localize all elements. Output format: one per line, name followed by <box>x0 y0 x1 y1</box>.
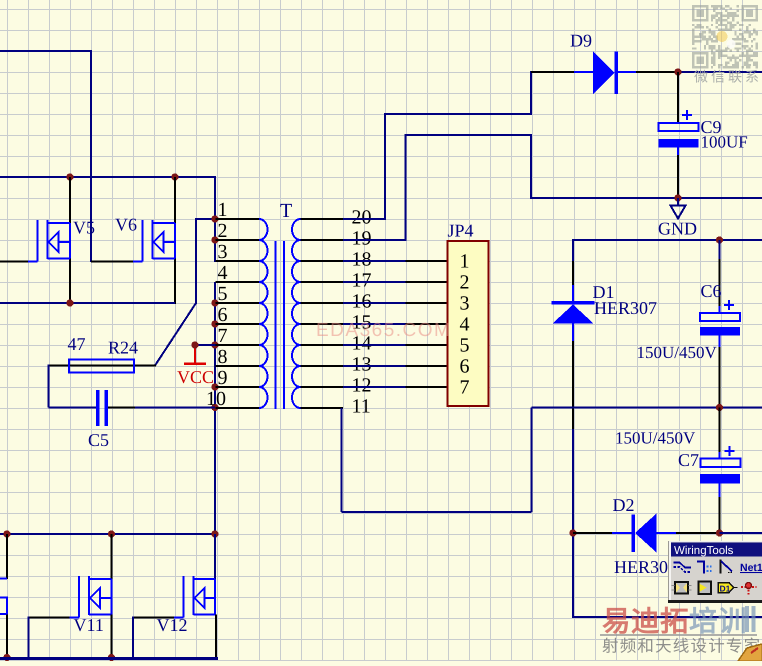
wire T pin 18 to JP4 <box>343 260 406 262</box>
wire T pin 14 to JP4 <box>343 344 406 346</box>
pin 19 of T <box>301 228 372 250</box>
svg-text:7: 7 <box>460 377 470 399</box>
label VCC <box>177 367 214 387</box>
pin 4 of T <box>216 262 260 284</box>
wire bottom HV return y=617 <box>573 616 762 618</box>
svg-text:7: 7 <box>218 325 228 347</box>
wire D2 anode lead <box>657 532 720 534</box>
pin 2 of T <box>216 220 260 242</box>
transistor V12 <box>174 576 215 618</box>
pin 1 of T <box>216 199 260 221</box>
label V6 <box>115 215 137 235</box>
svg-text:5: 5 <box>460 335 470 357</box>
svg-text:R24: R24 <box>108 338 138 358</box>
wire V10 drain lead <box>6 534 8 579</box>
wire D1 cathode lead <box>572 239 574 301</box>
svg-text:易迪拓培训: 易迪拓培训 <box>602 606 747 638</box>
wire mid rail y=407.5 <box>532 407 762 409</box>
connector JP4 <box>448 241 489 406</box>
capacitor C5 <box>96 390 108 426</box>
svg-text:微信联系: 微信联系 <box>694 69 762 85</box>
svg-text:17: 17 <box>352 270 372 292</box>
svg-text:射频和天线设计专家: 射频和天线设计专家 <box>602 638 761 656</box>
icon place part <box>672 582 692 594</box>
wire R24 body crossing <box>70 365 134 367</box>
node pin10 junction <box>211 404 218 411</box>
wire V6 gate <box>91 261 133 263</box>
svg-text:3: 3 <box>460 293 470 315</box>
wire D9 cathode lead <box>618 71 678 73</box>
wire V10 source lead <box>6 615 8 660</box>
pin 1 of JP4 <box>406 260 448 262</box>
svg-text:11: 11 <box>352 396 371 418</box>
svg-text:20: 20 <box>352 207 372 229</box>
svg-text:GND: GND <box>658 219 697 239</box>
wire GND rail y=198 <box>531 197 762 199</box>
wire bottom rail <box>0 657 218 660</box>
wire C6 top lead <box>719 240 721 313</box>
wire source rail y=303 <box>0 302 175 304</box>
node V11 source junction <box>108 654 115 661</box>
svg-text:C5: C5 <box>88 430 109 450</box>
power VCC symbol <box>184 345 206 364</box>
label 150U/450V (C6) <box>637 343 718 362</box>
transformer T core <box>276 241 285 409</box>
svg-text:HER307: HER307 <box>594 298 657 318</box>
svg-text:D2: D2 <box>613 495 635 515</box>
node pin7 junction <box>211 341 218 348</box>
window WiringTools toolbar <box>668 541 762 603</box>
label T <box>280 200 292 222</box>
svg-text:2: 2 <box>218 220 228 242</box>
svg-text:1: 1 <box>460 251 470 273</box>
svg-text:JP4: JP4 <box>448 221 474 241</box>
label V11 <box>74 615 104 635</box>
label D9 <box>570 31 592 51</box>
pin 11 of T <box>301 396 371 418</box>
svg-text:D9: D9 <box>570 31 592 51</box>
pin 14 of T <box>301 333 372 355</box>
pin 5 of T <box>216 283 260 305</box>
svg-text:150U/450V: 150U/450V <box>615 429 696 448</box>
label GND <box>658 219 697 239</box>
wire V5 gate <box>0 261 28 263</box>
capacitor C9 <box>659 110 699 156</box>
svg-text:1: 1 <box>218 199 228 221</box>
svg-text:6: 6 <box>218 304 228 326</box>
label HER307 (D2) <box>614 557 677 577</box>
node pin9 junction <box>211 383 218 390</box>
pin 3 of T <box>216 241 260 263</box>
node V5 drain junction <box>66 173 73 180</box>
wire D2 output net <box>720 532 762 534</box>
transistor V11 <box>70 576 112 618</box>
node C7 bottom junction <box>716 529 723 536</box>
wire C9 bottom lead <box>677 155 679 198</box>
node V10 drain junction <box>3 530 10 537</box>
svg-text:VCC: VCC <box>177 367 214 387</box>
wire V11 gate <box>29 617 70 660</box>
svg-text:2: 2 <box>460 272 470 294</box>
svg-text:47: 47 <box>68 334 86 354</box>
svg-text:V11: V11 <box>74 615 104 635</box>
wire R24/C5 left connector <box>49 365 97 408</box>
svg-text:4: 4 <box>460 314 470 336</box>
label D2 <box>613 495 635 515</box>
node V5 source junction <box>66 299 73 306</box>
node GND junction <box>674 194 681 201</box>
watermark 易迪拓培训 <box>602 606 756 638</box>
svg-text:C7: C7 <box>678 450 699 470</box>
wire C9 top lead <box>677 72 679 123</box>
wire V5 drain lead <box>69 177 71 223</box>
pin 2 of JP4 <box>406 281 448 283</box>
wire V6 source lead <box>174 259 176 305</box>
pin 7 of T <box>216 325 260 347</box>
pin 3 of JP4 <box>406 302 448 304</box>
wire pin20 to D9 <box>343 71 531 220</box>
node V10 source junction <box>3 654 10 661</box>
node pin1 junction <box>211 215 218 222</box>
capacitor C7 <box>700 446 741 484</box>
node VCC junction <box>191 341 198 348</box>
transistor V10 (partial) <box>0 579 7 616</box>
node C6 top junction <box>716 236 723 243</box>
svg-text:V5: V5 <box>73 218 95 238</box>
label R24 <box>108 338 138 358</box>
watermark underline <box>600 634 757 636</box>
node D2 cathode junction <box>569 529 576 536</box>
transformer T secondary winding <box>292 219 301 408</box>
svg-text:16: 16 <box>352 291 372 313</box>
icon place bus <box>721 560 734 574</box>
wire pin1 branch to R24 <box>155 218 215 366</box>
node C6 bottom junction <box>716 404 723 411</box>
wire C7 top lead <box>719 408 721 460</box>
label 47 <box>68 334 86 354</box>
svg-text:19: 19 <box>352 228 372 250</box>
wire T pin 17 to JP4 <box>343 281 406 283</box>
wire pin11 detour to output rail <box>342 408 532 513</box>
pin 8 of T <box>216 346 260 368</box>
node pin6 junction <box>211 320 218 327</box>
pin 4 of JP4 <box>406 323 448 325</box>
wire primary bus lower (pins 4-10) <box>214 282 216 535</box>
wire C6 bottom lead <box>719 336 721 409</box>
label JP4 <box>448 221 474 241</box>
diode D9 <box>593 52 618 95</box>
wire T pin 13 to JP4 <box>343 365 406 367</box>
pin 13 of T <box>301 354 372 376</box>
diode D1 <box>552 301 595 324</box>
icon place sheet symbol <box>699 582 712 595</box>
wire C5 right lead <box>108 407 215 409</box>
svg-text:100UF: 100UF <box>701 133 748 152</box>
node C9 top junction <box>674 68 681 75</box>
node pin2 junction <box>211 236 218 243</box>
wire pin19 to GND rail <box>343 134 531 241</box>
icon place power port D1 <box>718 583 738 594</box>
wire V11 drain lead <box>111 534 113 579</box>
svg-text:12: 12 <box>352 375 372 397</box>
wire T pin 12 to JP4 <box>343 386 406 388</box>
label V12 <box>157 615 188 635</box>
wire D2 cathode lead <box>573 532 632 534</box>
watermark EDA365.COM <box>316 320 451 341</box>
pin 15 of T <box>301 312 372 334</box>
wire V11 source lead <box>111 615 113 660</box>
wire T pin 15 to JP4 <box>343 323 406 325</box>
icon place junction <box>741 583 757 595</box>
wire D9 output net <box>678 71 762 73</box>
node V11 drain junction <box>108 530 115 537</box>
wire top-left L net <box>0 50 91 262</box>
wire low-side rail y=534 <box>0 533 216 535</box>
svg-text:HER307: HER307 <box>614 557 677 577</box>
pin 7 of JP4 <box>406 386 448 388</box>
watermark 射频和天线设计专家 <box>602 638 761 656</box>
watermark QR code <box>692 5 758 69</box>
svg-text:150U/450V: 150U/450V <box>637 343 718 362</box>
label 150U/450V (C7) <box>615 429 696 448</box>
svg-text:10: 10 <box>206 388 226 410</box>
pin 6 of JP4 <box>406 365 448 367</box>
wire HV net y=240 <box>573 239 762 241</box>
svg-text:WiringTools: WiringTools <box>674 545 734 557</box>
label HER307 (D1) <box>594 298 657 318</box>
pin 18 of T <box>301 249 372 271</box>
wire V6 drain lead <box>174 177 176 223</box>
svg-text:T: T <box>280 200 292 222</box>
wire V12 source lead <box>215 615 217 660</box>
wire V12 drain lead <box>214 534 216 579</box>
pin 10 of T <box>206 388 259 410</box>
transistor V6 <box>133 220 175 262</box>
svg-text:18: 18 <box>352 249 372 271</box>
resistor R24 <box>69 360 134 373</box>
ground GND symbol <box>671 198 686 219</box>
diode D2 <box>632 514 657 553</box>
label C9 <box>701 117 722 137</box>
svg-text:4: 4 <box>218 262 228 284</box>
svg-text:C6: C6 <box>701 281 722 301</box>
pin 17 of T <box>301 270 372 292</box>
svg-text:5: 5 <box>218 283 228 305</box>
label 100UF <box>701 133 748 152</box>
wire drain rail y=177 <box>0 176 216 220</box>
icon place net label Net1 <box>740 562 762 574</box>
watermark gold logo corner <box>738 644 762 661</box>
wire R24 right lead <box>134 365 156 367</box>
svg-text:13: 13 <box>352 354 372 376</box>
wire primary bus upper (pins 1-3) <box>214 219 216 262</box>
label C6 <box>701 281 722 301</box>
svg-text:9: 9 <box>218 367 228 389</box>
pin 20 of T <box>301 207 372 229</box>
wire C7 bottom lead <box>719 484 721 534</box>
wire R24 left lead <box>49 365 71 367</box>
wire V12 gate <box>133 617 174 660</box>
svg-text:6: 6 <box>460 356 470 378</box>
wire V5 source lead <box>69 259 71 305</box>
transistor V5 <box>28 220 70 262</box>
capacitor C6 <box>700 300 740 336</box>
pin 9 of T <box>216 367 260 389</box>
label V5 <box>73 218 95 238</box>
wire VCC stub <box>195 344 216 346</box>
label C5 <box>88 430 109 450</box>
pin 16 of T <box>301 291 372 313</box>
pin 6 of T <box>216 304 260 326</box>
svg-text:D1: D1 <box>720 584 731 594</box>
svg-text:8: 8 <box>218 346 228 368</box>
watermark QR yellow dot <box>717 31 736 49</box>
transformer T primary winding <box>259 219 268 408</box>
svg-text:3: 3 <box>218 241 228 263</box>
svg-text:EDA365.COM: EDA365.COM <box>316 320 451 341</box>
watermark QR caption 微信联系 <box>694 69 762 85</box>
svg-text:V6: V6 <box>115 215 137 235</box>
pin 5 of JP4 <box>406 344 448 346</box>
node bus bottom junction <box>211 530 218 537</box>
wire D1 anode lead <box>572 324 574 619</box>
label C7 <box>678 450 699 470</box>
icon place wire <box>674 563 692 573</box>
node pin5 junction <box>211 299 218 306</box>
node V6 drain junction <box>171 173 178 180</box>
wire T pin 16 to JP4 <box>343 302 406 304</box>
svg-text:Net1: Net1 <box>740 562 762 574</box>
wire D9 anode lead <box>531 71 593 73</box>
pin 12 of T <box>301 375 372 397</box>
icon place bus entry <box>697 562 712 574</box>
label D1 <box>593 282 615 302</box>
